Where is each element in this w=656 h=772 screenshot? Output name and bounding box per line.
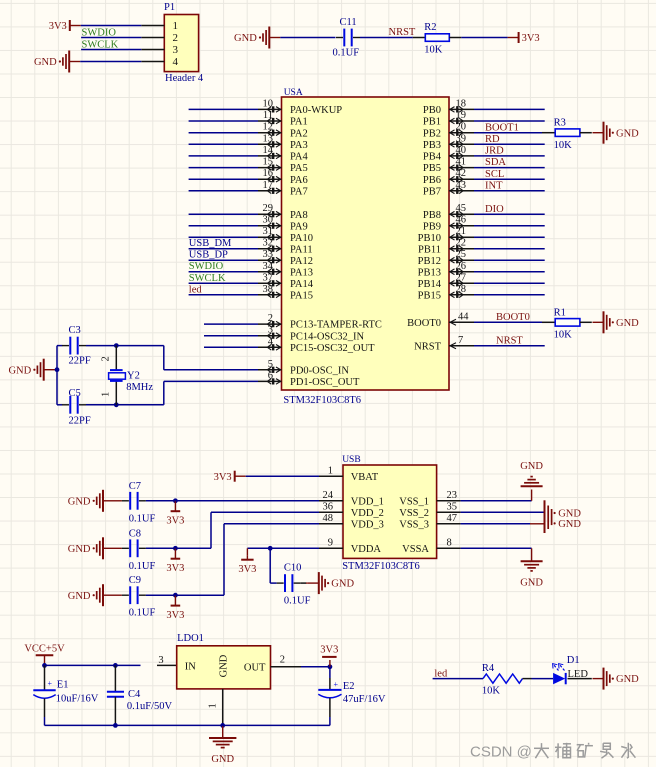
svg-text:R2: R2	[424, 22, 436, 33]
svg-text:PA4: PA4	[290, 152, 308, 163]
svg-text:42: 42	[456, 168, 467, 179]
svg-text:22PF: 22PF	[69, 416, 91, 427]
svg-text:GND: GND	[331, 579, 354, 590]
svg-text:0.1UF: 0.1UF	[333, 47, 360, 58]
svg-text:20: 20	[456, 122, 467, 133]
svg-text:GND: GND	[68, 544, 91, 555]
svg-text:3: 3	[268, 325, 273, 336]
svg-text:3V3: 3V3	[320, 645, 338, 656]
svg-text:BOOT1: BOOT1	[485, 122, 519, 133]
svg-text:32: 32	[263, 238, 274, 249]
svg-text:33: 33	[263, 249, 274, 260]
svg-text:24: 24	[323, 490, 334, 501]
svg-text:R3: R3	[554, 118, 566, 129]
svg-text:29: 29	[263, 203, 274, 214]
svg-text:SWCLK: SWCLK	[82, 39, 119, 50]
svg-text:+: +	[48, 679, 53, 688]
svg-text:4: 4	[173, 56, 179, 68]
svg-text:BOOT0: BOOT0	[407, 318, 441, 329]
svg-text:PB9: PB9	[423, 221, 441, 232]
svg-text:PA5: PA5	[290, 163, 308, 174]
svg-text:47uF/16V: 47uF/16V	[343, 694, 386, 705]
svg-text:PB7: PB7	[423, 186, 441, 197]
svg-text:JRD: JRD	[485, 146, 504, 157]
svg-text:2: 2	[268, 313, 273, 324]
svg-text:44: 44	[458, 311, 469, 322]
svg-text:8: 8	[447, 538, 452, 549]
svg-text:DIO: DIO	[485, 204, 504, 215]
svg-text:C3: C3	[69, 325, 81, 336]
svg-text:C10: C10	[284, 563, 302, 574]
svg-text:PC13-TAMPER-RTC: PC13-TAMPER-RTC	[290, 320, 382, 331]
svg-text:GND: GND	[218, 654, 229, 677]
svg-text:0.1UF: 0.1UF	[129, 513, 156, 524]
svg-text:USB_DP: USB_DP	[189, 250, 228, 261]
svg-text:3: 3	[158, 655, 163, 666]
svg-text:2: 2	[173, 32, 179, 44]
svg-text:21: 21	[456, 226, 467, 237]
svg-text:6: 6	[268, 370, 273, 381]
svg-text:1: 1	[173, 20, 179, 32]
svg-text:USA: USA	[284, 88, 303, 98]
svg-text:0.1UF: 0.1UF	[129, 608, 156, 619]
svg-text:PA3: PA3	[290, 140, 308, 151]
svg-text:0.1uF/50V: 0.1uF/50V	[127, 701, 173, 712]
svg-text:4: 4	[268, 336, 274, 347]
svg-text:RD: RD	[485, 134, 500, 145]
svg-text:GND: GND	[558, 519, 581, 530]
svg-text:PD0-OSC_IN: PD0-OSC_IN	[290, 365, 349, 376]
svg-text:GND: GND	[520, 577, 543, 588]
svg-text:PB15: PB15	[418, 290, 441, 301]
svg-text:BOOT0: BOOT0	[496, 312, 530, 323]
svg-text:3V3: 3V3	[522, 33, 540, 44]
svg-text:8MHz: 8MHz	[126, 382, 153, 393]
svg-text:26: 26	[456, 261, 467, 272]
svg-text:3V3: 3V3	[49, 21, 67, 32]
svg-text:PD1-OSC_OUT: PD1-OSC_OUT	[290, 377, 360, 388]
svg-text:47: 47	[447, 513, 458, 524]
svg-text:22PF: 22PF	[69, 356, 91, 367]
svg-text:37: 37	[263, 272, 274, 283]
svg-text:PB10: PB10	[418, 233, 441, 244]
svg-text:PB4: PB4	[423, 152, 442, 163]
svg-text:18: 18	[456, 98, 467, 109]
svg-text:PB12: PB12	[418, 256, 441, 267]
svg-text:3V3: 3V3	[166, 610, 184, 621]
svg-text:PB13: PB13	[418, 267, 441, 278]
svg-text:GND: GND	[68, 496, 91, 507]
svg-text:VSS_2: VSS_2	[399, 508, 429, 519]
svg-text:1: 1	[328, 466, 333, 477]
svg-text:PB3: PB3	[423, 140, 441, 151]
svg-text:VDD_1: VDD_1	[351, 496, 384, 507]
svg-text:GND: GND	[34, 57, 57, 68]
svg-text:GND: GND	[234, 33, 257, 44]
svg-text:+: +	[334, 680, 339, 689]
svg-text:14: 14	[263, 145, 274, 156]
svg-text:VDDA: VDDA	[351, 544, 382, 555]
svg-text:PB8: PB8	[423, 210, 441, 221]
svg-text:10K: 10K	[482, 685, 501, 696]
svg-text:46: 46	[456, 215, 467, 226]
svg-text:45: 45	[456, 203, 467, 214]
svg-text:13: 13	[263, 133, 274, 144]
svg-text:PA6: PA6	[290, 175, 308, 186]
svg-text:1: 1	[208, 703, 219, 708]
svg-text:GND: GND	[558, 508, 581, 519]
svg-text:GND: GND	[616, 128, 639, 139]
svg-text:PC14-OSC32_IN: PC14-OSC32_IN	[290, 331, 365, 342]
svg-text:10K: 10K	[554, 330, 573, 341]
svg-text:LDO1: LDO1	[177, 633, 204, 644]
svg-text:3V3: 3V3	[238, 564, 256, 575]
svg-text:VSS_3: VSS_3	[399, 519, 429, 530]
svg-text:22: 22	[456, 238, 467, 249]
svg-text:PC15-OSC32_OUT: PC15-OSC32_OUT	[290, 343, 375, 354]
svg-text:SCL: SCL	[485, 169, 504, 180]
svg-text:STM32F103C8T6: STM32F103C8T6	[342, 561, 420, 572]
svg-text:INT: INT	[485, 181, 503, 192]
svg-text:NRST: NRST	[496, 336, 523, 347]
svg-text:PA14: PA14	[290, 279, 314, 290]
svg-text:C7: C7	[129, 481, 141, 492]
svg-text:34: 34	[263, 261, 274, 272]
svg-text:GND: GND	[616, 318, 639, 329]
svg-text:3V3: 3V3	[166, 515, 184, 526]
svg-text:31: 31	[263, 226, 274, 237]
svg-text:48: 48	[323, 513, 334, 524]
svg-text:PA10: PA10	[290, 233, 313, 244]
svg-text:PB0: PB0	[423, 105, 441, 116]
svg-text:0.1UF: 0.1UF	[284, 596, 311, 607]
svg-text:36: 36	[323, 502, 334, 513]
svg-text:PA7: PA7	[290, 186, 308, 197]
svg-text:PA11: PA11	[290, 244, 313, 255]
svg-text:E1: E1	[57, 680, 69, 691]
svg-text:IN: IN	[185, 662, 196, 673]
svg-text:R1: R1	[554, 307, 566, 318]
svg-text:led: led	[189, 284, 203, 295]
svg-text:PA0-WKUP: PA0-WKUP	[290, 105, 342, 116]
svg-text:5: 5	[268, 359, 273, 370]
svg-text:11: 11	[263, 110, 273, 121]
svg-text:USB: USB	[342, 455, 360, 465]
svg-text:1: 1	[101, 392, 112, 397]
svg-text:PA13: PA13	[290, 267, 313, 278]
svg-text:USB_DM: USB_DM	[189, 238, 232, 249]
svg-text:9: 9	[328, 538, 333, 549]
svg-text:3V3: 3V3	[214, 472, 232, 483]
svg-text:39: 39	[456, 133, 467, 144]
svg-text:PA12: PA12	[290, 256, 313, 267]
svg-text:10K: 10K	[424, 44, 443, 55]
svg-text:VDD_2: VDD_2	[351, 508, 384, 519]
svg-text:2: 2	[101, 356, 112, 361]
svg-text:10: 10	[263, 98, 274, 109]
svg-text:SDA: SDA	[485, 157, 506, 168]
svg-text:GND: GND	[520, 461, 543, 472]
svg-text:SWDIO: SWDIO	[82, 27, 117, 38]
svg-text:VBAT: VBAT	[351, 472, 379, 483]
svg-text:PA1: PA1	[290, 117, 308, 128]
svg-text:P1: P1	[164, 2, 175, 13]
svg-text:VSS_1: VSS_1	[399, 496, 429, 507]
svg-text:PB5: PB5	[423, 163, 441, 174]
svg-text:GND: GND	[8, 365, 31, 376]
svg-text:35: 35	[447, 502, 458, 513]
svg-text:17: 17	[263, 180, 274, 191]
svg-text:SWDIO: SWDIO	[189, 261, 224, 272]
svg-text:2: 2	[280, 655, 285, 666]
svg-text:VDD_3: VDD_3	[351, 519, 384, 530]
svg-text:C9: C9	[129, 575, 141, 586]
svg-text:PA2: PA2	[290, 128, 308, 139]
svg-text:D1: D1	[567, 655, 580, 666]
svg-text:VCC+5V: VCC+5V	[24, 644, 65, 655]
svg-text:41: 41	[456, 157, 467, 168]
svg-text:28: 28	[456, 284, 467, 295]
svg-text:CSDN @: CSDN @	[470, 744, 532, 761]
svg-text:PB2: PB2	[423, 128, 441, 139]
svg-text:25: 25	[456, 249, 467, 260]
svg-text:PB1: PB1	[423, 117, 441, 128]
svg-text:VSSA: VSSA	[402, 544, 429, 555]
svg-text:27: 27	[456, 272, 467, 283]
svg-text:R4: R4	[482, 663, 495, 674]
svg-text:SWCLK: SWCLK	[189, 273, 226, 284]
svg-text:12: 12	[263, 122, 274, 133]
svg-text:23: 23	[447, 490, 458, 501]
svg-text:OUT: OUT	[244, 663, 266, 674]
svg-text:GND: GND	[68, 591, 91, 602]
svg-text:3: 3	[173, 44, 179, 56]
svg-text:PA15: PA15	[290, 290, 313, 301]
svg-text:PB11: PB11	[418, 244, 441, 255]
svg-text:NRST: NRST	[389, 27, 416, 38]
svg-text:Header 4: Header 4	[165, 73, 204, 84]
svg-text:10uF/16V: 10uF/16V	[56, 693, 99, 704]
svg-text:GND: GND	[211, 754, 234, 765]
svg-text:3V3: 3V3	[166, 563, 184, 574]
svg-text:E2: E2	[343, 681, 355, 692]
svg-text:PB6: PB6	[423, 175, 441, 186]
svg-text:NRST: NRST	[414, 341, 441, 352]
svg-text:16: 16	[263, 168, 274, 179]
svg-text:PB14: PB14	[418, 279, 442, 290]
svg-text:PA8: PA8	[290, 210, 308, 221]
svg-text:7: 7	[458, 335, 463, 346]
svg-text:C11: C11	[340, 17, 357, 28]
svg-text:43: 43	[456, 180, 467, 191]
svg-text:0.1UF: 0.1UF	[129, 561, 156, 572]
svg-text:STM32F103C8T6: STM32F103C8T6	[283, 395, 361, 406]
svg-text:30: 30	[263, 215, 274, 226]
svg-text:C8: C8	[129, 528, 141, 539]
svg-text:GND: GND	[616, 674, 639, 685]
svg-text:Y2: Y2	[127, 370, 140, 381]
svg-text:10K: 10K	[554, 140, 573, 151]
svg-text:38: 38	[263, 284, 274, 295]
svg-text:PA9: PA9	[290, 221, 308, 232]
svg-text:19: 19	[456, 110, 467, 121]
svg-text:40: 40	[456, 145, 467, 156]
svg-text:15: 15	[263, 157, 274, 168]
svg-text:C5: C5	[69, 388, 81, 399]
svg-text:C4: C4	[128, 689, 141, 700]
